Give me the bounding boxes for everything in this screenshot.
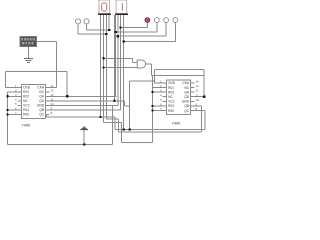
svg-text:R02: R02	[168, 90, 174, 94]
wire drop x121.5	[121, 122, 123, 142]
svg-text:14: 14	[196, 80, 199, 84]
wire U1 QD rail	[50, 100, 125, 102]
wire riser to U2 pin 8	[204, 111, 206, 130]
wire left vertical to CKB	[5, 72, 7, 88]
wire hook U2 pin 3	[153, 91, 163, 93]
svg-text:QD: QD	[184, 95, 190, 99]
svg-text:R01: R01	[23, 90, 29, 94]
node probe R3	[117, 35, 119, 37]
wire hook U1 pin 2	[8, 91, 18, 93]
node reset rail r6	[6, 109, 8, 111]
wire QD carry drop	[124, 101, 126, 106]
wire bottom ground rail	[8, 144, 113, 146]
svg-text:10: 10	[196, 98, 199, 102]
wire display 1 pin 4	[108, 15, 110, 30]
svg-text:QA: QA	[184, 90, 190, 94]
svg-text:R92: R92	[168, 109, 174, 113]
wire U2 reset vertical	[152, 76, 154, 143]
svg-text:CKB: CKB	[23, 86, 30, 90]
node gate in 2	[102, 66, 104, 68]
wire AND input 1 step	[132, 58, 134, 62]
node QD carry joint	[129, 128, 131, 130]
svg-text:VCC: VCC	[23, 104, 31, 108]
wire display1 pin2 elbow	[103, 121, 121, 123]
ground symbol 1 (clock)	[24, 59, 33, 63]
svg-text:13: 13	[51, 88, 54, 92]
wire U1 QA rail	[50, 95, 117, 97]
svg-text:CKA: CKA	[182, 81, 190, 85]
wire display 1 pin 2	[102, 15, 104, 122]
svg-text:QA: QA	[39, 95, 45, 99]
wire probe R2 stem	[156, 23, 158, 32]
wire bottom rail to U2 QB	[119, 131, 202, 133]
svg-text:QC: QC	[184, 109, 190, 113]
node reset rail r3	[6, 95, 8, 97]
svg-text:7490: 7490	[22, 123, 32, 128]
wire hook U1 pin 6	[8, 109, 18, 111]
and gate U3	[137, 60, 145, 68]
wire clock to U1 CKA vertical	[56, 42, 58, 88]
node U2 reset r3	[152, 91, 154, 93]
wire AND input 1 horizontal	[103, 57, 132, 59]
wire QC dip down	[45, 114, 47, 117]
node probe R2	[115, 31, 117, 33]
svg-text:R02: R02	[23, 95, 29, 99]
wire AND input 1 into gate	[133, 62, 138, 64]
svg-text:NC: NC	[39, 90, 44, 94]
wire AND output rail	[151, 75, 204, 77]
wire GND rail drop	[111, 105, 113, 144]
wire bottom rail to U2 QC	[115, 128, 205, 130]
node U2 r9 hook7	[152, 109, 154, 111]
wire U1 GND rail	[50, 104, 118, 106]
svg-text:10: 10	[51, 102, 54, 106]
wire QA feedback top horizontal	[6, 71, 68, 73]
wire display 1 pin 3	[105, 15, 107, 119]
wire QD carry riser-drop	[129, 81, 131, 129]
wire QC low rail	[46, 116, 115, 118]
svg-text:R01: R01	[168, 86, 174, 90]
wire drop x118.5	[118, 119, 120, 132]
wire probe R3 horizontal	[118, 35, 166, 37]
svg-text:12: 12	[196, 89, 199, 93]
node QD rail	[113, 100, 115, 102]
wire carry top rail	[155, 68, 205, 70]
wire AND output	[146, 63, 152, 65]
wire probe L1 horizontal	[78, 33, 106, 35]
wire clock output horizontal	[37, 41, 57, 43]
svg-text:13: 13	[196, 84, 199, 88]
IC U2 7490	[160, 80, 199, 126]
wire U2 QB stub rail	[195, 105, 202, 107]
wire hook U1 pin 3	[8, 95, 18, 97]
node reset rail r7	[6, 113, 8, 115]
wire riser to U2 pin 9	[201, 106, 203, 132]
wire QD carry to CKB rail	[130, 80, 155, 82]
node probe R4	[123, 40, 125, 42]
probe R4	[173, 18, 178, 23]
svg-text:VCC: VCC	[168, 100, 176, 104]
wire display1 pin3 elbow	[106, 118, 118, 120]
wire U2 QC stub rail	[195, 110, 205, 112]
svg-text:12: 12	[51, 93, 54, 97]
svg-text:7490: 7490	[172, 121, 182, 126]
wire hook U2 pin 2	[153, 87, 163, 89]
node probe L1	[105, 33, 107, 35]
probe R1 lit	[145, 18, 150, 23]
node gate in 1	[102, 57, 104, 59]
wire probe L2 stem	[86, 24, 88, 30]
wire QD carry jog	[125, 105, 130, 107]
wire to U1 pin 1	[6, 86, 18, 88]
node display1 pin1 tap	[99, 116, 101, 118]
wire drop x115.1	[114, 117, 116, 129]
wire carry right vertical	[203, 69, 205, 96]
wire hook U2 pin 6	[153, 105, 163, 107]
wire probe L1 stem	[77, 24, 79, 34]
wire GND riser	[117, 15, 119, 105]
node probe R1	[119, 26, 121, 28]
wire into U2 pin 1	[155, 82, 163, 84]
seven segment display DISP2 digit 1	[115, 0, 128, 15]
probe L2	[84, 19, 89, 24]
svg-text:QB: QB	[39, 108, 44, 112]
svg-text:QB: QB	[184, 104, 189, 108]
wire display 2 pin 4 riser	[123, 15, 125, 129]
wire ground 2 stem	[83, 129, 85, 145]
probe R3	[164, 18, 169, 23]
svg-text:NC: NC	[168, 95, 173, 99]
svg-text:CKA: CKA	[37, 86, 45, 90]
wire display 1 pin 1	[99, 15, 101, 117]
wire carry to U2 CKB	[154, 69, 156, 83]
clock source component	[20, 37, 37, 47]
seven segment display DISP1 digit 0	[98, 0, 111, 15]
probe R2	[155, 18, 160, 23]
wire AND output drop	[150, 64, 152, 76]
svg-text:GND: GND	[182, 100, 190, 104]
wire probe R3 stem	[165, 23, 167, 37]
IC U1 7490	[15, 84, 54, 128]
svg-text:14: 14	[51, 84, 54, 88]
node U2 r9 hook6	[152, 105, 154, 107]
svg-text:NC: NC	[184, 86, 189, 90]
svg-text:GND: GND	[37, 104, 45, 108]
node probe L2	[108, 29, 110, 31]
node QA feedback	[66, 95, 68, 97]
svg-text:R92: R92	[23, 113, 29, 117]
node QC riser joint	[123, 128, 125, 130]
wire probe R1 stem	[146, 23, 148, 28]
wire display 2 pin 2 riser	[115, 15, 117, 96]
wire probe R1 horizontal	[121, 26, 148, 28]
wire into U1 pin 14	[50, 86, 57, 88]
wire hook U2 pin 7	[153, 110, 163, 112]
wire U2 QD stub rail	[195, 96, 205, 98]
wire left reset rail vertical	[7, 92, 9, 145]
wire AND input 2	[103, 67, 137, 69]
svg-text:NC: NC	[23, 99, 28, 103]
svg-text:QC: QC	[39, 113, 45, 117]
wire U1 QB rail	[50, 109, 121, 111]
wire probe R2 horizontal	[116, 31, 157, 33]
wire probe L2 horizontal	[87, 29, 110, 31]
svg-text:R91: R91	[23, 108, 29, 112]
node ground tap	[83, 143, 85, 145]
svg-text:R91: R91	[168, 104, 174, 108]
svg-text:QD: QD	[39, 99, 45, 103]
wire clock to ground	[28, 47, 30, 59]
wire probe R4 horizontal	[124, 40, 176, 42]
wire QA feedback riser	[66, 72, 68, 97]
wire display 2 pin 3 riser	[120, 15, 122, 110]
wire low rail	[122, 142, 153, 144]
svg-text:CKB: CKB	[168, 81, 175, 85]
wire display 2 pin 1 riser	[113, 15, 115, 101]
wire probe R4 stem	[174, 23, 176, 42]
wire hook U1 pin 7	[8, 113, 18, 115]
probe L1	[75, 19, 80, 24]
ground symbol 2 (bottom rail, inverted)	[80, 127, 88, 129]
node U2 carry QD	[203, 96, 205, 98]
